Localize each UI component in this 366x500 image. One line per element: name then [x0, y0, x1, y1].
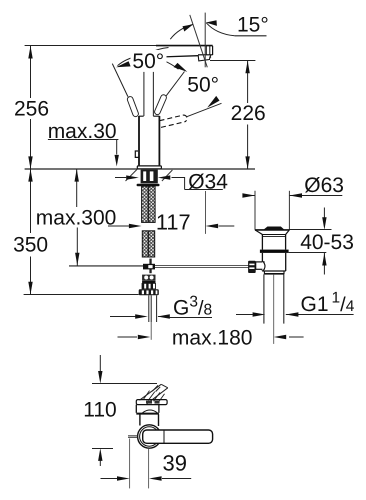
svg-text:350: 350 [13, 233, 48, 256]
svg-text:110: 110 [83, 399, 116, 422]
svg-text:117: 117 [156, 209, 191, 234]
svg-text:Ø63: Ø63 [304, 174, 344, 197]
svg-text:256: 256 [14, 97, 49, 120]
svg-text:40-53: 40-53 [300, 231, 354, 254]
svg-text:max.300: max.300 [36, 207, 117, 230]
svg-text:50°: 50° [187, 74, 219, 97]
svg-text:Ø34: Ø34 [188, 170, 228, 193]
svg-text:226: 226 [231, 102, 266, 125]
svg-text:50°: 50° [132, 50, 164, 73]
svg-text:G11/4: G11/4 [301, 290, 355, 316]
svg-text:max.180: max.180 [172, 326, 253, 349]
svg-text:15°: 15° [237, 13, 269, 36]
svg-text:39: 39 [163, 451, 187, 476]
svg-text:G3/8: G3/8 [173, 294, 212, 320]
